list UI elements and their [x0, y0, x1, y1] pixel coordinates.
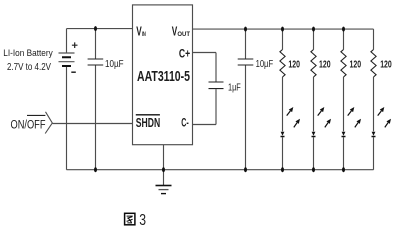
svg-text:IN: IN: [142, 32, 146, 38]
svg-text:2.7V to 4.2V: 2.7V to 4.2V: [7, 61, 51, 73]
svg-text:1µF: 1µF: [228, 82, 241, 93]
svg-text:SHDN: SHDN: [136, 115, 160, 130]
svg-text:10µF: 10µF: [105, 59, 124, 70]
svg-text:120: 120: [380, 60, 392, 71]
svg-text:10µF: 10µF: [256, 59, 274, 70]
svg-text:C-: C-: [181, 116, 189, 130]
svg-text:OUT: OUT: [177, 31, 190, 38]
svg-text:C+: C+: [179, 47, 190, 61]
svg-text:ON/OFF: ON/OFF: [11, 117, 46, 131]
svg-text:120: 120: [350, 60, 362, 71]
svg-text:AAT3110-5: AAT3110-5: [137, 68, 190, 85]
svg-text:120: 120: [319, 60, 331, 71]
svg-text:120: 120: [288, 60, 300, 71]
svg-text:3: 3: [139, 212, 146, 229]
svg-text:LI-Ion Battery: LI-Ion Battery: [3, 48, 53, 59]
